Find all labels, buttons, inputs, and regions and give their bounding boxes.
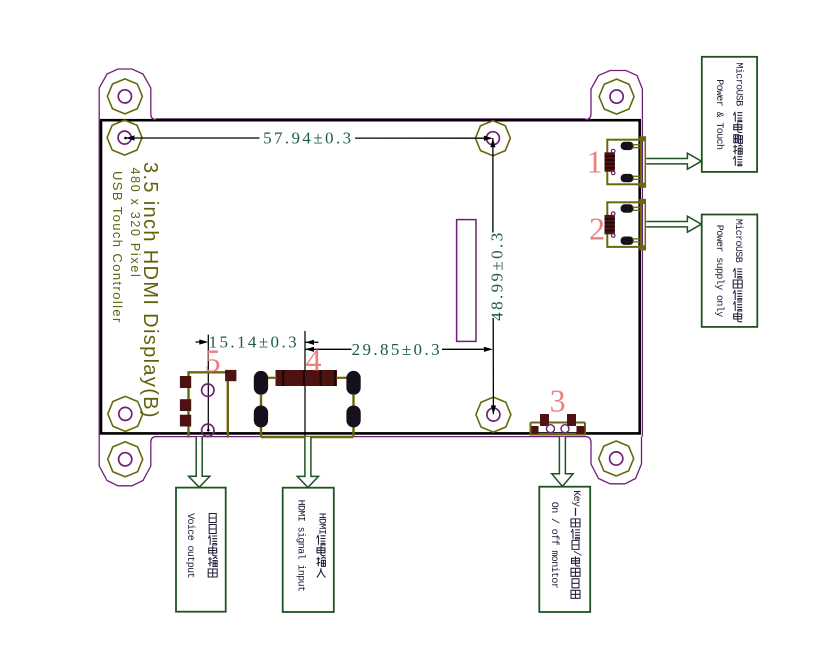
dim 15.14 outside arrow right [305,340,314,345]
FPC connector outline [457,220,476,342]
tab pad octagon bottom-left [108,442,143,477]
board hole bottom-left [119,407,132,420]
tab hole bottom-right [610,452,623,465]
svg-text:29.85±0.3: 29.85±0.3 [352,340,442,359]
dim 15.14 outside arrow left [199,339,208,344]
MicroUSB connector 2 (power only) [605,199,646,250]
dim 48.99 line bottom segment [492,318,494,414]
board outline rim right segment [641,120,643,437]
key button SW3 footprint [530,414,587,434]
tab hole top-left [118,90,131,103]
dim 48.99 arrow top [490,138,495,147]
board pad octagon bottom-center [476,397,511,432]
callout box: voice output [176,488,226,612]
svg-text:1: 1 [587,143,603,179]
svg-text:3: 3 [550,382,566,418]
dim 57.94 line right segment [355,137,489,139]
tab pad octagon top-right [599,79,634,114]
svg-text:Power & Touch: Power & Touch [713,79,725,150]
mounting tab bottom-left [99,436,156,486]
tab pad octagon bottom-right [599,441,634,476]
board hole top-center [486,132,499,145]
tab hole top-right [610,90,623,103]
arrow HDMI to callout [297,437,318,488]
svg-text:480 x 320 Pixel: 480 x 320 Pixel [128,168,142,279]
arrow audio to callout [189,437,210,487]
svg-text:2: 2 [589,210,605,246]
svg-text:MicroUSB: MicroUSB [732,63,744,107]
dim 29.85 arrow right [484,347,493,352]
audio jack J5 footprint [180,370,237,438]
board outline (PCB edge) [101,120,640,433]
MicroUSB connector 1 (power & touch) [605,136,646,187]
svg-text:Power supply only: Power supply only [713,225,725,317]
mounting tab bottom-right [586,437,642,484]
HDMI connector J4 footprint [254,370,361,437]
svg-text:4: 4 [306,342,322,378]
mounting tab top-left [99,69,156,120]
board outline rim left segment [98,120,100,436]
dim 48.99 line top segment [492,138,494,232]
dim 29.85 line right segment [442,348,489,350]
svg-text:HDMI: HDMI [316,513,327,535]
arrow key to callout [552,437,573,487]
svg-text:5: 5 [205,342,221,378]
board pad octagon bottom-left [108,396,143,431]
dim 15.14 start dot [207,429,210,432]
callout text line1: voice output [209,514,216,523]
arrow USB1 to callout [646,153,701,169]
svg-text:57.94±0.3: 57.94±0.3 [263,129,353,148]
dim 29.85 arrow left [305,347,314,352]
dim 15.14 outside arrow left tail [196,341,205,343]
dim 57.94 arrow left [126,135,135,140]
board pad octagon top-left [107,120,142,155]
svg-text:15.14±0.3: 15.14±0.3 [209,332,299,351]
dim origin dot top-left pad [124,137,127,140]
dim 15.14 extension line (audio jack center) [207,335,209,431]
svg-text:MicroUSB: MicroUSB [732,219,744,263]
board outline rim top segment [156,118,586,120]
svg-text:/: / [570,550,582,556]
svg-text:HDMI signal input: HDMI signal input [294,500,306,592]
svg-text:48.99±0.3: 48.99±0.3 [488,230,507,320]
board hole bottom-center [487,408,500,421]
dim 57.94 arrow right [484,136,493,141]
tab pad octagon top-left [107,79,142,114]
svg-text:Key: Key [570,490,581,507]
dim 29.85 line left segment [305,348,352,350]
svg-text:On / off monitor: On / off monitor [548,502,560,589]
dim 29.85 extension line (HDMI center) [304,331,306,437]
board hole top-left [118,131,131,144]
dim 15.14 outside arrow right tail [305,341,319,343]
tab hole bottom-left [119,453,132,466]
svg-text:Voice output: Voice output [184,513,196,578]
arrow USB2 to callout [646,216,701,232]
callout box: MicroUSB power supply only [702,215,758,327]
dim 48.99 arrow bottom [491,405,496,414]
callout box: HDMI signal input [283,488,334,612]
mounting tab top-right [586,71,643,120]
svg-text:USB Touch Controller: USB Touch Controller [110,171,125,324]
dim 57.94 line left segment [126,137,260,139]
board outline rim bottom segment [156,436,586,438]
callout box: key on/off monitor [539,487,590,612]
board pad octagon top-center [475,121,510,156]
callout box: MicroUSB power and touch [702,57,757,172]
